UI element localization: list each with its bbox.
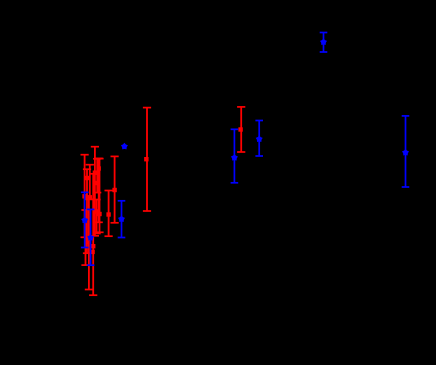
red errorbar M at x=241.2 [237, 106, 245, 153]
blue errorbar Q at x=405.5 [402, 115, 410, 188]
red errorbar C at x=93.2 [89, 173, 97, 296]
red errorbar A2 at x=85.5 [81, 209, 89, 266]
red errorbar E3 at x=99.5 [95, 158, 103, 233]
red errorbar E1 at x=97.2 [93, 158, 101, 194]
blue errorbar N at x=234.4 [231, 128, 239, 183]
red errorbar A1 at x=84.6 [81, 154, 89, 238]
red errorbar B2 at x=88.9 [85, 198, 93, 290]
blue errorbar L at x=90.6 [87, 209, 95, 267]
red errorbar G at x=114.6 [111, 156, 119, 224]
blue errorbar P at x=323.5 [320, 32, 328, 53]
lone blue star marker [122, 144, 128, 149]
red errorbar H at x=147.0 [143, 107, 151, 212]
red errorbar E4 at x=96.6 [93, 199, 101, 235]
red errorbar F at x=108.6 [105, 190, 113, 237]
blue errorbar J at x=121.5 [118, 200, 126, 238]
red square marker (tiny errors) [90, 250, 94, 254]
red errorbar B1 at x=89.8 [86, 164, 94, 200]
red errorbar D at x=94.9 [91, 146, 99, 237]
blue errorbar I at x=84.7 [81, 191, 89, 248]
red errorbar E2 at x=98.7 [95, 158, 103, 224]
blue errorbar O at x=259.2 [255, 120, 263, 157]
red errorbar A3 at x=87.0 [83, 168, 91, 254]
